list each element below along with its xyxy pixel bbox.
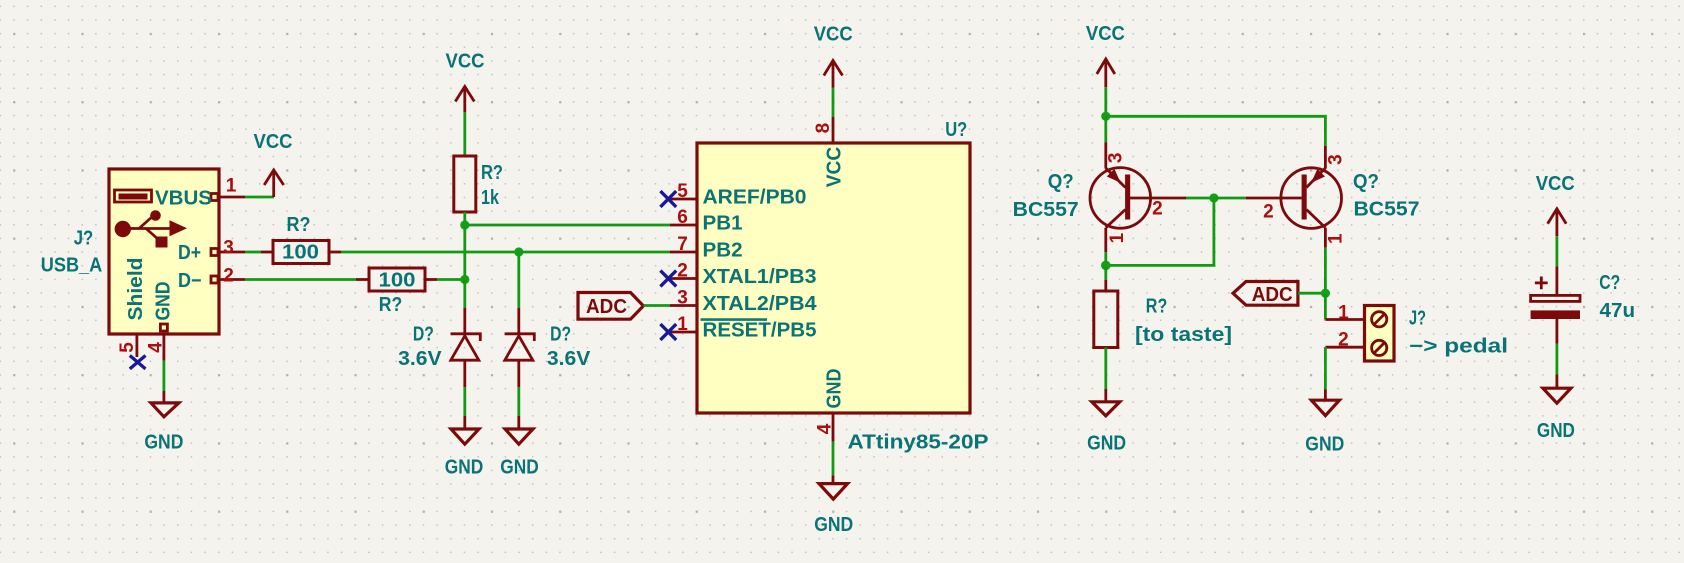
- svg-text:1: 1: [226, 175, 237, 196]
- svg-text:4: 4: [145, 342, 166, 353]
- wire node B down to node C: [1106, 198, 1214, 265]
- ground symbol (D2): [500, 416, 539, 478]
- svg-text:4: 4: [815, 423, 836, 434]
- svg-text:XTAL2/PB4: XTAL2/PB4: [703, 293, 818, 315]
- ground symbol (R4): [1087, 389, 1126, 454]
- wire D1 to GND: [463, 387, 466, 416]
- reference label J?: [74, 227, 94, 249]
- power symbol VCC (R1): [446, 50, 485, 112]
- svg-text:GND: GND: [814, 514, 853, 536]
- junction node PB1: [460, 220, 469, 229]
- svg-text:D−: D−: [178, 270, 202, 292]
- svg-text:USB_A: USB_A: [41, 254, 103, 276]
- svg-text:6: 6: [677, 207, 688, 228]
- junction node D+: [514, 247, 523, 256]
- svg-text:BC557: BC557: [1354, 198, 1420, 220]
- svg-text:100: 100: [379, 269, 416, 291]
- zener diode D1: [398, 308, 480, 387]
- svg-text:R?: R?: [1146, 295, 1168, 317]
- svg-text:[to taste]: [to taste]: [1135, 324, 1232, 346]
- power symbol VCC (USB): [254, 131, 293, 197]
- wire R2 to PB2: [341, 251, 670, 254]
- wire Q2 collector to node ADC: [1324, 248, 1327, 294]
- svg-text:5: 5: [677, 181, 688, 202]
- IC U1 ATtiny85 body: [697, 143, 970, 413]
- value label -> pedal: [1409, 335, 1508, 357]
- svg-text:2: 2: [1338, 329, 1349, 350]
- svg-text:Shield: Shield: [125, 258, 147, 321]
- svg-text:GND: GND: [1537, 420, 1575, 442]
- no-connect X on U1 pin 1: [660, 324, 676, 340]
- capacitor C1 47u: [1531, 266, 1635, 343]
- svg-text:GND: GND: [500, 456, 539, 478]
- svg-text:−> pedal: −> pedal: [1409, 335, 1508, 357]
- svg-text:GND: GND: [824, 369, 846, 409]
- svg-text:VCC: VCC: [824, 147, 846, 188]
- resistor R2 100: [261, 214, 341, 264]
- svg-text:1: 1: [1326, 233, 1347, 244]
- svg-text:U?: U?: [945, 119, 967, 141]
- svg-text:3: 3: [223, 237, 234, 258]
- svg-text:3: 3: [1326, 154, 1347, 165]
- resistor R4 [to taste]: [1094, 280, 1232, 348]
- svg-text:1: 1: [677, 314, 688, 335]
- wire node ADC to J5 pin 1: [1324, 293, 1327, 319]
- wire node C to R4: [1104, 265, 1107, 280]
- svg-text:3.6V: 3.6V: [398, 348, 442, 370]
- value label BC557 (Q2): [1354, 198, 1420, 220]
- ground symbol (U1): [814, 475, 853, 536]
- ground symbol (D1): [445, 416, 484, 478]
- svg-text:GND: GND: [1305, 434, 1344, 456]
- svg-text:R?: R?: [287, 214, 311, 236]
- J1 pin 2 D-: [178, 265, 245, 292]
- svg-text:7: 7: [677, 234, 688, 255]
- svg-text:ADC: ADC: [1252, 284, 1293, 306]
- J1 pin 4 GND: [145, 282, 174, 361]
- svg-text:8: 8: [813, 123, 834, 134]
- wire VCC to C1: [1556, 236, 1559, 266]
- U1 pin 3 XTAL2/PB4: [670, 288, 817, 316]
- J1 pin 3 D+: [178, 237, 245, 264]
- junction node D-: [460, 275, 469, 284]
- svg-text:Q?: Q?: [1048, 171, 1074, 193]
- wire U1 pin 4 to GND: [832, 442, 835, 476]
- svg-text:PB2: PB2: [703, 240, 743, 262]
- wire D2 to GND: [517, 387, 520, 416]
- wire node E down to Q1 emitter: [1104, 116, 1107, 142]
- svg-text:2: 2: [1263, 201, 1274, 222]
- svg-text:2: 2: [223, 265, 234, 286]
- wire node B to Q2 base: [1214, 197, 1246, 200]
- svg-text:C?: C?: [1599, 272, 1620, 294]
- wire C1 to GND: [1556, 344, 1559, 375]
- value label BC557 (Q1): [1013, 199, 1079, 221]
- power symbol VCC (C1): [1536, 173, 1575, 236]
- power symbol VCC (transistors): [1086, 23, 1125, 87]
- wire ADC label to node ADC: [1298, 292, 1326, 295]
- wire VCC down to node E: [1104, 87, 1107, 116]
- svg-text:3.6V: 3.6V: [547, 348, 591, 370]
- global label ADC (to XTAL2/PB4): [578, 293, 643, 320]
- svg-text:VCC: VCC: [1086, 23, 1125, 45]
- svg-text:2: 2: [1152, 198, 1163, 219]
- svg-text:GND: GND: [1087, 432, 1126, 454]
- U1 pin 8 VCC top: [813, 117, 846, 187]
- svg-text:ATtiny85-20P: ATtiny85-20P: [848, 431, 989, 453]
- svg-text:Q?: Q?: [1353, 171, 1379, 193]
- wire R1 to node PB1: [463, 212, 466, 225]
- svg-text:3: 3: [677, 288, 688, 309]
- no-connect X on U1 pin 2: [660, 271, 676, 287]
- wire D- to R3: [245, 278, 356, 281]
- global label ADC (pedal): [1233, 282, 1298, 307]
- wire VCC to R1: [463, 112, 466, 156]
- wire Q1 collector to node C: [1104, 252, 1107, 265]
- U1 pin 7 PB2: [670, 234, 743, 262]
- svg-text:VCC: VCC: [254, 131, 293, 153]
- svg-text:1: 1: [1107, 232, 1128, 243]
- svg-text:BC557: BC557: [1013, 199, 1079, 221]
- zener diode D2: [505, 308, 591, 387]
- svg-text:VCC: VCC: [446, 50, 485, 72]
- wire node D+ to zener D2: [517, 252, 520, 308]
- svg-text:ADC: ADC: [586, 296, 627, 318]
- reference label Q? (Q1): [1048, 171, 1074, 193]
- transistor Q1 BC557: [1090, 142, 1186, 252]
- svg-text:RESET/PB5: RESET/PB5: [703, 320, 817, 342]
- wire J5 pin 2 to GND: [1324, 347, 1327, 389]
- wire D+ to R2: [245, 251, 261, 254]
- value label ATtiny85-20P: [848, 431, 989, 453]
- svg-text:1: 1: [1338, 303, 1349, 324]
- reference label J? (pedal): [1409, 308, 1426, 330]
- svg-text:GND: GND: [144, 431, 183, 453]
- U1 pin 6 PB1: [670, 207, 743, 235]
- svg-text:VCC: VCC: [1536, 173, 1575, 195]
- connector J1 USB_A body: [109, 169, 219, 334]
- value label USB_A: [41, 254, 103, 276]
- svg-text:2: 2: [677, 261, 688, 282]
- wire R3 to node D-: [437, 278, 465, 281]
- svg-text:XTAL1/PB3: XTAL1/PB3: [703, 266, 817, 288]
- wire VBUS pin to VCC: [245, 196, 274, 199]
- svg-text:J?: J?: [1409, 308, 1426, 330]
- svg-text:47u: 47u: [1600, 300, 1636, 322]
- svg-text:AREF/PB0: AREF/PB0: [703, 187, 807, 209]
- svg-text:GND: GND: [152, 282, 174, 321]
- U1 pin 1 RESET/PB5: [670, 314, 817, 342]
- wire node D- to zener D1: [463, 280, 466, 309]
- svg-text:D?: D?: [550, 324, 571, 346]
- wire VCC to U1 pin 8: [832, 88, 835, 118]
- connector J5 screw terminal: [1325, 303, 1394, 362]
- svg-text:R?: R?: [481, 162, 503, 184]
- resistor R1 1k: [454, 156, 503, 212]
- svg-text:R?: R?: [379, 294, 403, 316]
- junction node B: [1209, 193, 1218, 202]
- junction node ADC: [1321, 289, 1330, 298]
- ground symbol (C1): [1537, 375, 1575, 442]
- junction node C: [1101, 261, 1111, 271]
- junction node E: [1101, 112, 1110, 121]
- svg-text:VCC: VCC: [814, 24, 853, 46]
- J1 pin 1 VBUS: [155, 175, 245, 209]
- U1 pin 4 GND bottom: [815, 369, 846, 442]
- power symbol VCC (U1): [814, 24, 853, 88]
- reference label Q? (Q2): [1353, 171, 1379, 193]
- svg-text:D+: D+: [178, 242, 201, 264]
- svg-text:J?: J?: [74, 227, 94, 249]
- wire Q1 base to node B: [1186, 197, 1214, 200]
- no-connect X on U1 pin 5: [660, 191, 676, 207]
- resistor R3 100: [356, 268, 437, 316]
- wire R4 to GND: [1104, 348, 1107, 390]
- svg-text:3: 3: [1106, 153, 1127, 164]
- no-connect X on J1 pin 5: [130, 356, 146, 369]
- ground symbol (USB): [144, 391, 183, 453]
- wire node PB1 down to node D-: [463, 225, 466, 280]
- svg-text:1k: 1k: [481, 187, 500, 209]
- wire node E to Q2 emitter: [1106, 116, 1326, 146]
- svg-text:PB1: PB1: [703, 213, 743, 235]
- wire ADC to IC pin 3: [643, 304, 670, 307]
- J1 pin 5 Shield: [117, 258, 147, 358]
- U1 pin 2 XTAL1/PB3: [670, 261, 817, 289]
- svg-text:100: 100: [282, 241, 319, 263]
- svg-text:5: 5: [117, 342, 138, 353]
- svg-text:D?: D?: [413, 324, 434, 346]
- svg-text:GND: GND: [445, 456, 484, 478]
- ground symbol (J5): [1305, 390, 1344, 456]
- transistor Q2 BC557: [1246, 146, 1347, 248]
- wire J1 pin 4 to GND: [162, 361, 165, 391]
- U1 pin 5 AREF/PB0: [670, 181, 807, 209]
- reference label U?: [945, 119, 967, 141]
- wire node PB1 to IC pin 6: [465, 224, 670, 227]
- svg-text:VBUS: VBUS: [155, 187, 212, 209]
